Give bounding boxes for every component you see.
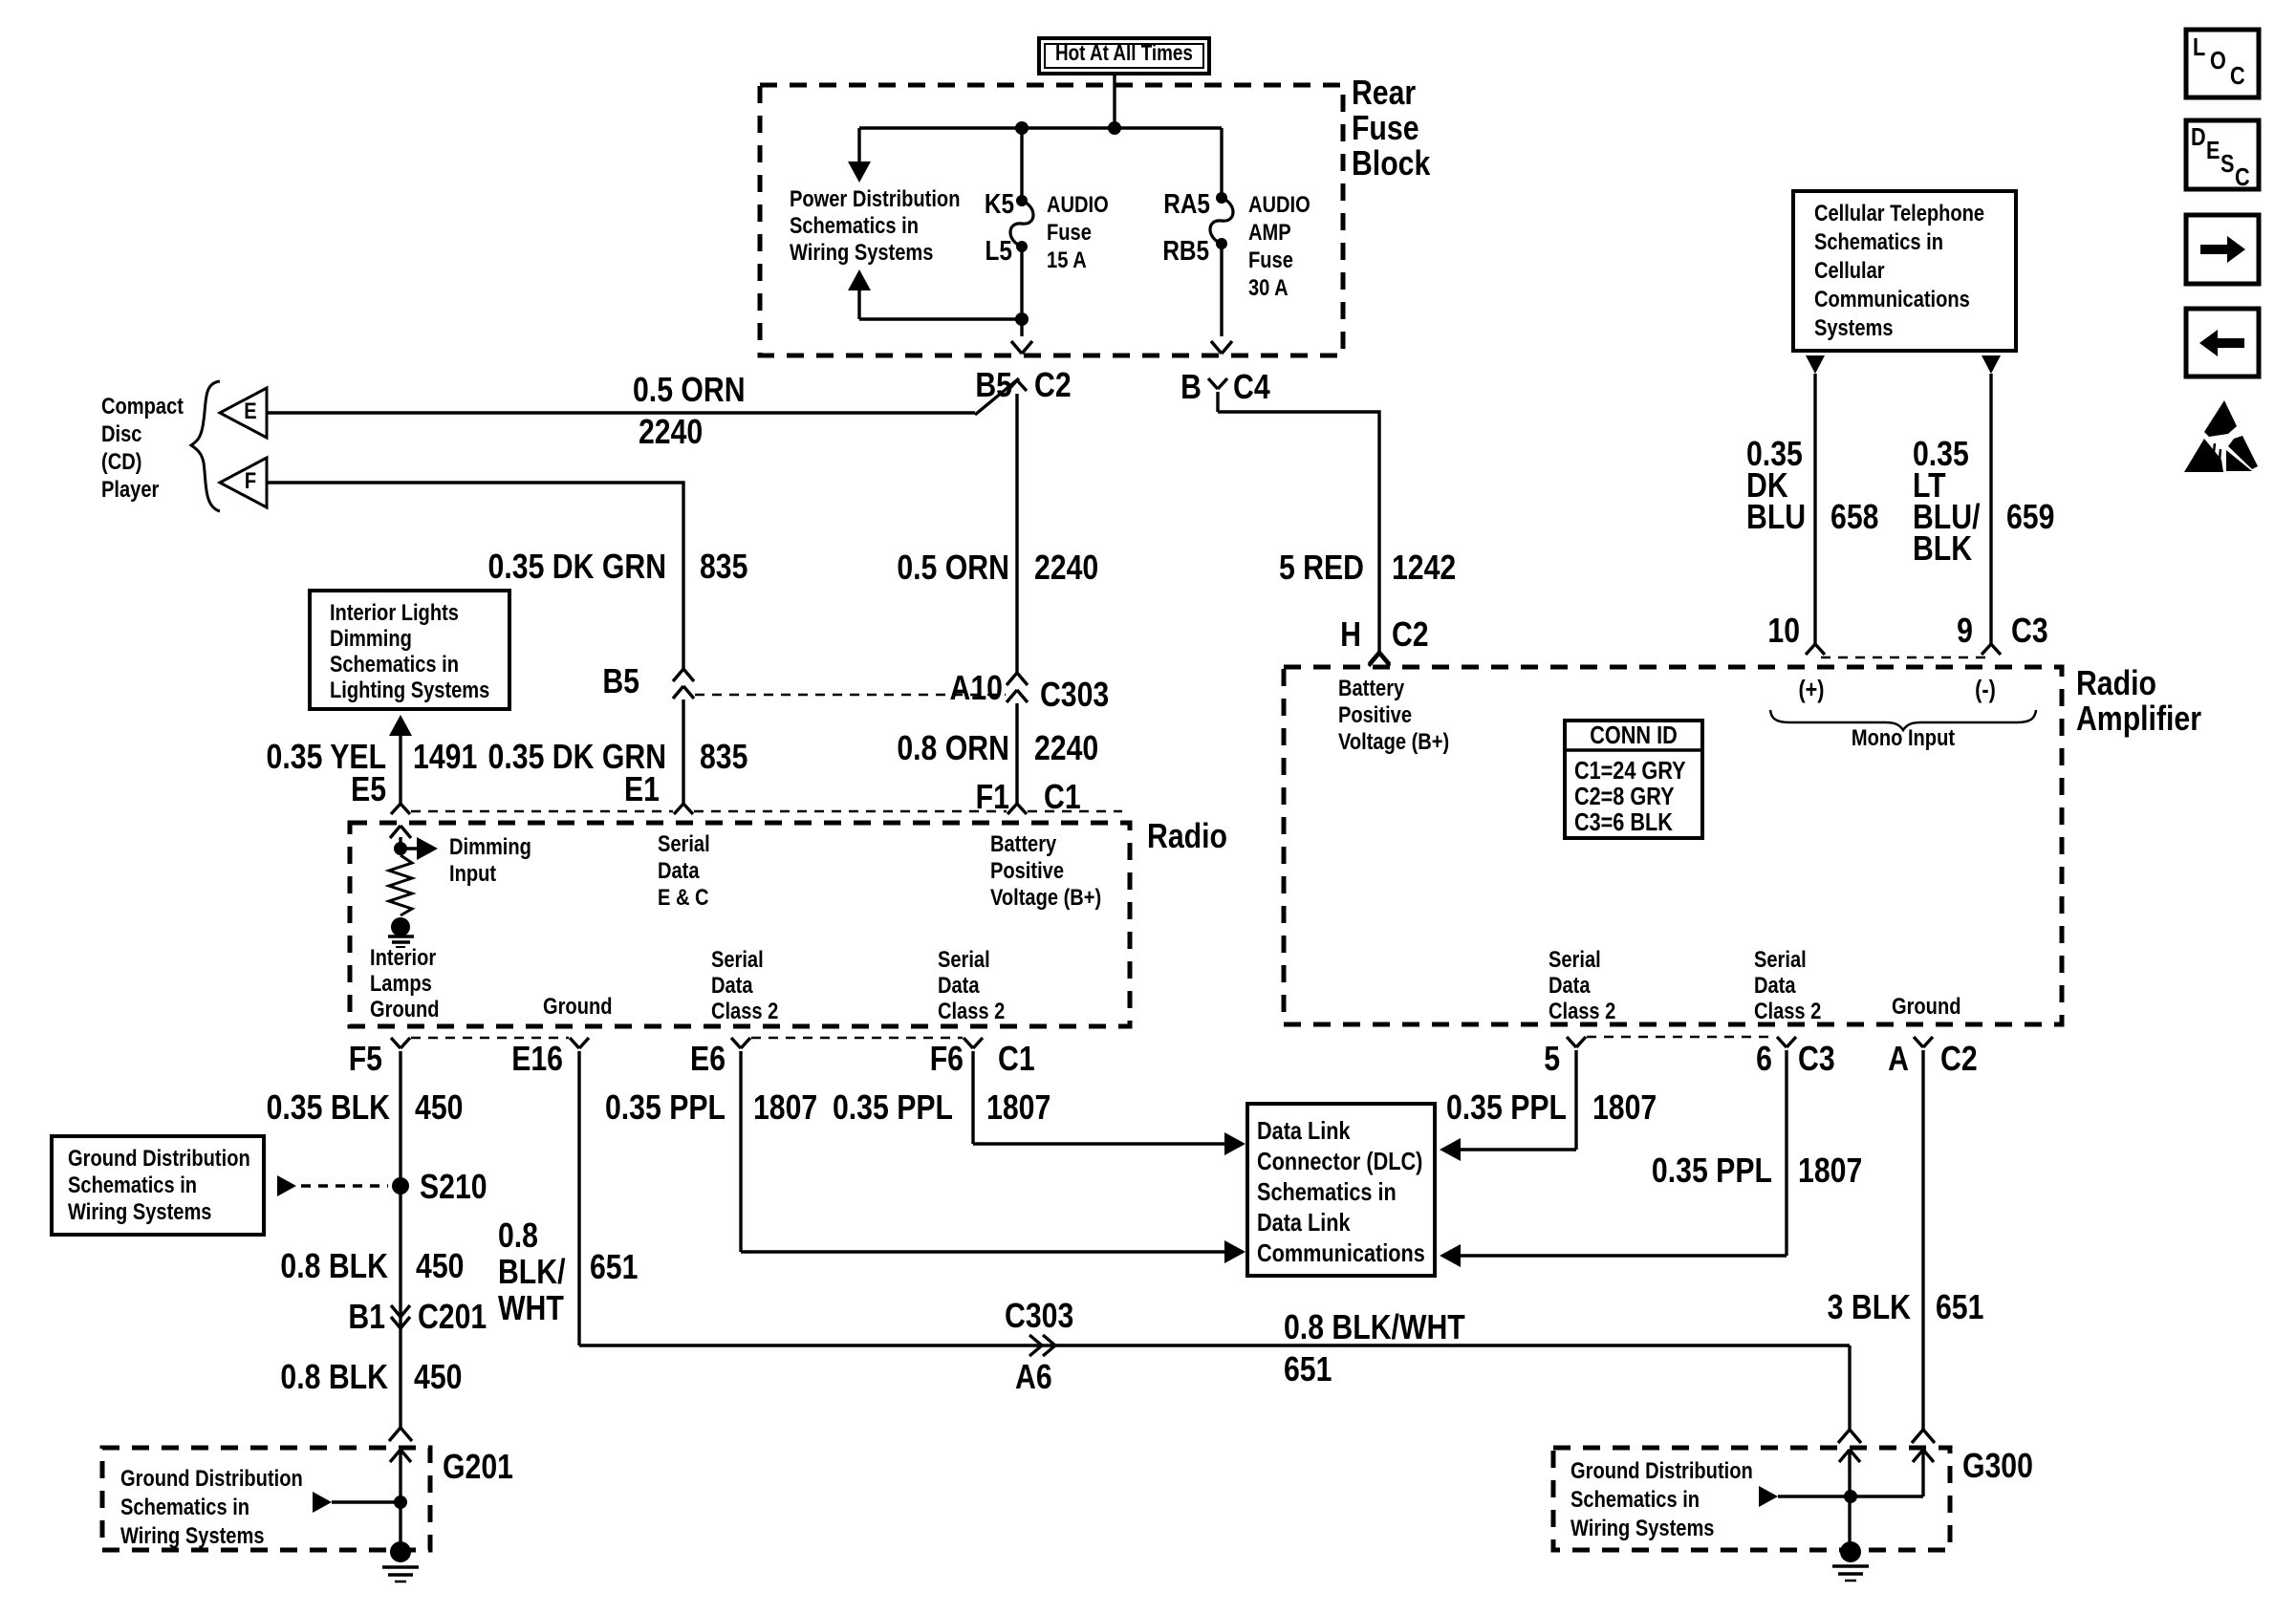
svg-text:Schematics in: Schematics in — [1570, 1486, 1700, 1512]
svg-text:C3: C3 — [2011, 613, 2048, 651]
svg-text:Wiring Systems: Wiring Systems — [790, 239, 933, 265]
svg-text:B1: B1 — [348, 1299, 385, 1337]
svg-text:Block: Block — [1352, 145, 1431, 183]
svg-text:(CD): (CD) — [101, 448, 141, 474]
svg-text:Voltage (B+): Voltage (B+) — [990, 884, 1101, 910]
svg-text:658: 658 — [1830, 499, 1878, 537]
svg-text:2240: 2240 — [1034, 730, 1098, 768]
svg-text:Schematics in: Schematics in — [120, 1494, 249, 1519]
svg-text:F6: F6 — [930, 1041, 964, 1079]
svg-text:Serial: Serial — [1549, 946, 1601, 972]
svg-text:Cellular: Cellular — [1814, 257, 1885, 283]
svg-text:Data: Data — [1754, 972, 1796, 998]
svg-text:0.35 PPL: 0.35 PPL — [605, 1089, 726, 1128]
svg-text:Serial: Serial — [711, 946, 764, 972]
svg-text:Wiring Systems: Wiring Systems — [68, 1198, 211, 1224]
svg-text:E: E — [2206, 138, 2220, 164]
svg-text:K5: K5 — [985, 188, 1014, 219]
svg-text:(+): (+) — [1798, 677, 1824, 703]
svg-text:0.8 BLK: 0.8 BLK — [280, 1359, 388, 1397]
svg-text:Cellular Telephone: Cellular Telephone — [1814, 200, 1984, 226]
svg-text:Ground: Ground — [1892, 993, 1960, 1019]
svg-text:C303: C303 — [1005, 1298, 1073, 1336]
svg-text:651: 651 — [1936, 1289, 1983, 1327]
svg-text:O: O — [2210, 48, 2226, 75]
svg-text:0.8 ORN: 0.8 ORN — [897, 730, 1009, 768]
svg-text:1807: 1807 — [1798, 1152, 1862, 1191]
svg-text:1807: 1807 — [1592, 1089, 1657, 1128]
svg-text:Player: Player — [101, 476, 160, 502]
svg-text:C3=6 BLK: C3=6 BLK — [1574, 809, 1673, 836]
svg-text:Schematics in: Schematics in — [68, 1172, 197, 1197]
svg-text:Fuse: Fuse — [1352, 110, 1419, 148]
svg-text:B: B — [1180, 369, 1202, 407]
svg-text:Data: Data — [658, 857, 700, 883]
svg-text:E6: E6 — [690, 1041, 726, 1079]
svg-text:S210: S210 — [420, 1169, 487, 1207]
svg-text:Ground Distribution: Ground Distribution — [68, 1145, 250, 1171]
svg-text:Fuse: Fuse — [1047, 219, 1092, 245]
svg-text:C: C — [2230, 63, 2245, 90]
svg-text:B5: B5 — [602, 663, 639, 701]
svg-text:659: 659 — [2006, 499, 2054, 537]
svg-text:15 A: 15 A — [1047, 247, 1087, 272]
svg-text:Interior Lights: Interior Lights — [330, 599, 459, 625]
svg-text:1807: 1807 — [753, 1089, 817, 1128]
svg-text:Ground: Ground — [370, 996, 439, 1022]
svg-text:Schematics in: Schematics in — [330, 651, 459, 677]
svg-text:Hot At All Times: Hot At All Times — [1055, 41, 1193, 65]
svg-text:AMP: AMP — [1248, 219, 1291, 245]
svg-text:H: H — [1340, 616, 1361, 655]
svg-text:Data Link: Data Link — [1257, 1210, 1351, 1237]
svg-text:Disc: Disc — [101, 420, 141, 446]
svg-text:S: S — [2220, 151, 2234, 178]
svg-text:0.8: 0.8 — [498, 1217, 538, 1256]
svg-text:3 BLK: 3 BLK — [1828, 1289, 1911, 1327]
svg-text:Positive: Positive — [1338, 701, 1412, 727]
svg-text:0.35 DK GRN: 0.35 DK GRN — [488, 549, 666, 587]
svg-text:0.35 BLK: 0.35 BLK — [267, 1089, 390, 1128]
svg-text:5: 5 — [1544, 1041, 1560, 1079]
svg-text:C2: C2 — [1940, 1041, 1978, 1079]
svg-text:RA5: RA5 — [1163, 188, 1210, 219]
svg-text:C2: C2 — [1392, 616, 1429, 655]
svg-text:Mono Input: Mono Input — [1852, 724, 1956, 750]
svg-text:WHT: WHT — [498, 1290, 564, 1328]
svg-text:1242: 1242 — [1392, 549, 1456, 588]
svg-text:Serial: Serial — [1754, 946, 1807, 972]
svg-text:6: 6 — [1756, 1041, 1772, 1079]
svg-text:Serial: Serial — [938, 946, 990, 972]
svg-text:Wiring Systems: Wiring Systems — [1570, 1515, 1714, 1540]
svg-text:0.35 PPL: 0.35 PPL — [833, 1089, 953, 1128]
svg-text:Power Distribution: Power Distribution — [790, 185, 960, 211]
svg-text:Schematics in: Schematics in — [790, 212, 919, 238]
svg-text:Interior: Interior — [370, 944, 436, 970]
svg-text:0.5 ORN: 0.5 ORN — [897, 549, 1009, 588]
svg-text:A: A — [1888, 1041, 1909, 1079]
svg-text:Lighting Systems: Lighting Systems — [330, 677, 489, 702]
svg-text:BLK: BLK — [1913, 530, 1972, 569]
svg-text:Voltage (B+): Voltage (B+) — [1338, 728, 1449, 754]
svg-text:Battery: Battery — [1338, 675, 1405, 700]
svg-text:Schematics in: Schematics in — [1814, 228, 1943, 254]
svg-text:Ground: Ground — [543, 993, 612, 1019]
svg-text:E16: E16 — [511, 1041, 563, 1079]
svg-text:Rear: Rear — [1352, 75, 1416, 113]
svg-text:C1: C1 — [998, 1041, 1035, 1079]
svg-text:C2: C2 — [1034, 367, 1072, 405]
svg-text:0.8 BLK/WHT: 0.8 BLK/WHT — [1284, 1309, 1465, 1347]
svg-text:F5: F5 — [349, 1041, 382, 1079]
svg-text:Class 2: Class 2 — [711, 998, 778, 1023]
svg-text:10: 10 — [1767, 613, 1800, 651]
svg-text:Input: Input — [449, 860, 497, 886]
svg-text:Data: Data — [938, 972, 980, 998]
svg-text:450: 450 — [415, 1089, 463, 1128]
svg-text:AUDIO: AUDIO — [1248, 191, 1310, 217]
svg-text:1807: 1807 — [986, 1089, 1051, 1128]
svg-text:Ground Distribution: Ground Distribution — [1570, 1457, 1753, 1483]
svg-text:Wiring Systems: Wiring Systems — [120, 1522, 264, 1548]
svg-text:Dimming: Dimming — [449, 833, 531, 859]
svg-text:0.5 ORN: 0.5 ORN — [633, 372, 746, 410]
svg-text:2240: 2240 — [1034, 549, 1098, 588]
svg-text:Connector (DLC): Connector (DLC) — [1257, 1149, 1422, 1175]
svg-text:9: 9 — [1957, 613, 1973, 651]
svg-text:Radio: Radio — [1147, 818, 1227, 856]
svg-text:G201: G201 — [443, 1449, 513, 1487]
svg-text:C201: C201 — [418, 1299, 487, 1337]
svg-text:0.35 PPL: 0.35 PPL — [1652, 1152, 1772, 1191]
svg-text:Systems: Systems — [1814, 314, 1894, 340]
svg-text:Compact: Compact — [101, 393, 184, 419]
svg-text:835: 835 — [700, 739, 747, 777]
svg-text:Class 2: Class 2 — [938, 998, 1005, 1023]
svg-text:0.35 PPL: 0.35 PPL — [1446, 1089, 1567, 1128]
svg-text:Serial: Serial — [658, 830, 710, 856]
svg-text:C1=24 GRY: C1=24 GRY — [1574, 758, 1686, 785]
svg-text:651: 651 — [590, 1249, 638, 1287]
svg-text:450: 450 — [414, 1359, 462, 1397]
svg-text:F: F — [245, 467, 256, 493]
svg-text:2240: 2240 — [639, 414, 703, 452]
svg-text:Data: Data — [711, 972, 753, 998]
svg-text:BLK/: BLK/ — [498, 1254, 566, 1292]
svg-text:Amplifier: Amplifier — [2076, 700, 2201, 739]
svg-text:L: L — [2193, 34, 2205, 61]
svg-text:E1: E1 — [624, 771, 660, 809]
svg-text:30 A: 30 A — [1248, 274, 1289, 300]
svg-text:450: 450 — [416, 1248, 464, 1286]
svg-text:BLU: BLU — [1746, 499, 1806, 537]
svg-text:Schematics in: Schematics in — [1257, 1179, 1397, 1206]
svg-text:A6: A6 — [1015, 1359, 1052, 1397]
svg-text:C303: C303 — [1040, 677, 1109, 715]
svg-text:0.8 BLK: 0.8 BLK — [280, 1248, 388, 1286]
svg-text:A10: A10 — [950, 670, 1003, 708]
svg-text:Battery: Battery — [990, 830, 1057, 856]
svg-text:D: D — [2191, 124, 2206, 151]
svg-text:Data: Data — [1549, 972, 1591, 998]
svg-text:Class 2: Class 2 — [1549, 998, 1615, 1023]
svg-text:C: C — [2235, 164, 2250, 191]
svg-text:1491: 1491 — [413, 739, 477, 777]
svg-text:C4: C4 — [1233, 369, 1270, 407]
svg-text:Communications: Communications — [1814, 286, 1970, 312]
svg-text:651: 651 — [1284, 1351, 1332, 1389]
svg-text:E & C: E & C — [658, 884, 709, 910]
svg-text:Ground Distribution: Ground Distribution — [120, 1465, 303, 1491]
svg-text:E5: E5 — [351, 771, 386, 809]
svg-text:CONN ID: CONN ID — [1590, 722, 1677, 749]
svg-text:Fuse: Fuse — [1248, 247, 1293, 272]
svg-text:Positive: Positive — [990, 857, 1064, 883]
svg-text:C3: C3 — [1798, 1041, 1835, 1079]
svg-text:Lamps: Lamps — [370, 970, 432, 996]
svg-text:5 RED: 5 RED — [1279, 549, 1364, 588]
svg-text:835: 835 — [700, 549, 747, 587]
svg-text:(-): (-) — [1975, 677, 1996, 703]
svg-text:C2=8 GRY: C2=8 GRY — [1574, 784, 1675, 810]
svg-text:Data Link: Data Link — [1257, 1118, 1351, 1145]
svg-text:Communications: Communications — [1257, 1240, 1425, 1267]
svg-text:Class 2: Class 2 — [1754, 998, 1821, 1023]
svg-text:Dimming: Dimming — [330, 625, 412, 651]
svg-text:L5: L5 — [986, 235, 1013, 266]
svg-text:AUDIO: AUDIO — [1047, 191, 1109, 217]
svg-text:E: E — [244, 398, 256, 423]
svg-text:G300: G300 — [1962, 1448, 2033, 1486]
svg-text:Radio: Radio — [2076, 665, 2156, 703]
svg-text:RB5: RB5 — [1162, 235, 1209, 266]
